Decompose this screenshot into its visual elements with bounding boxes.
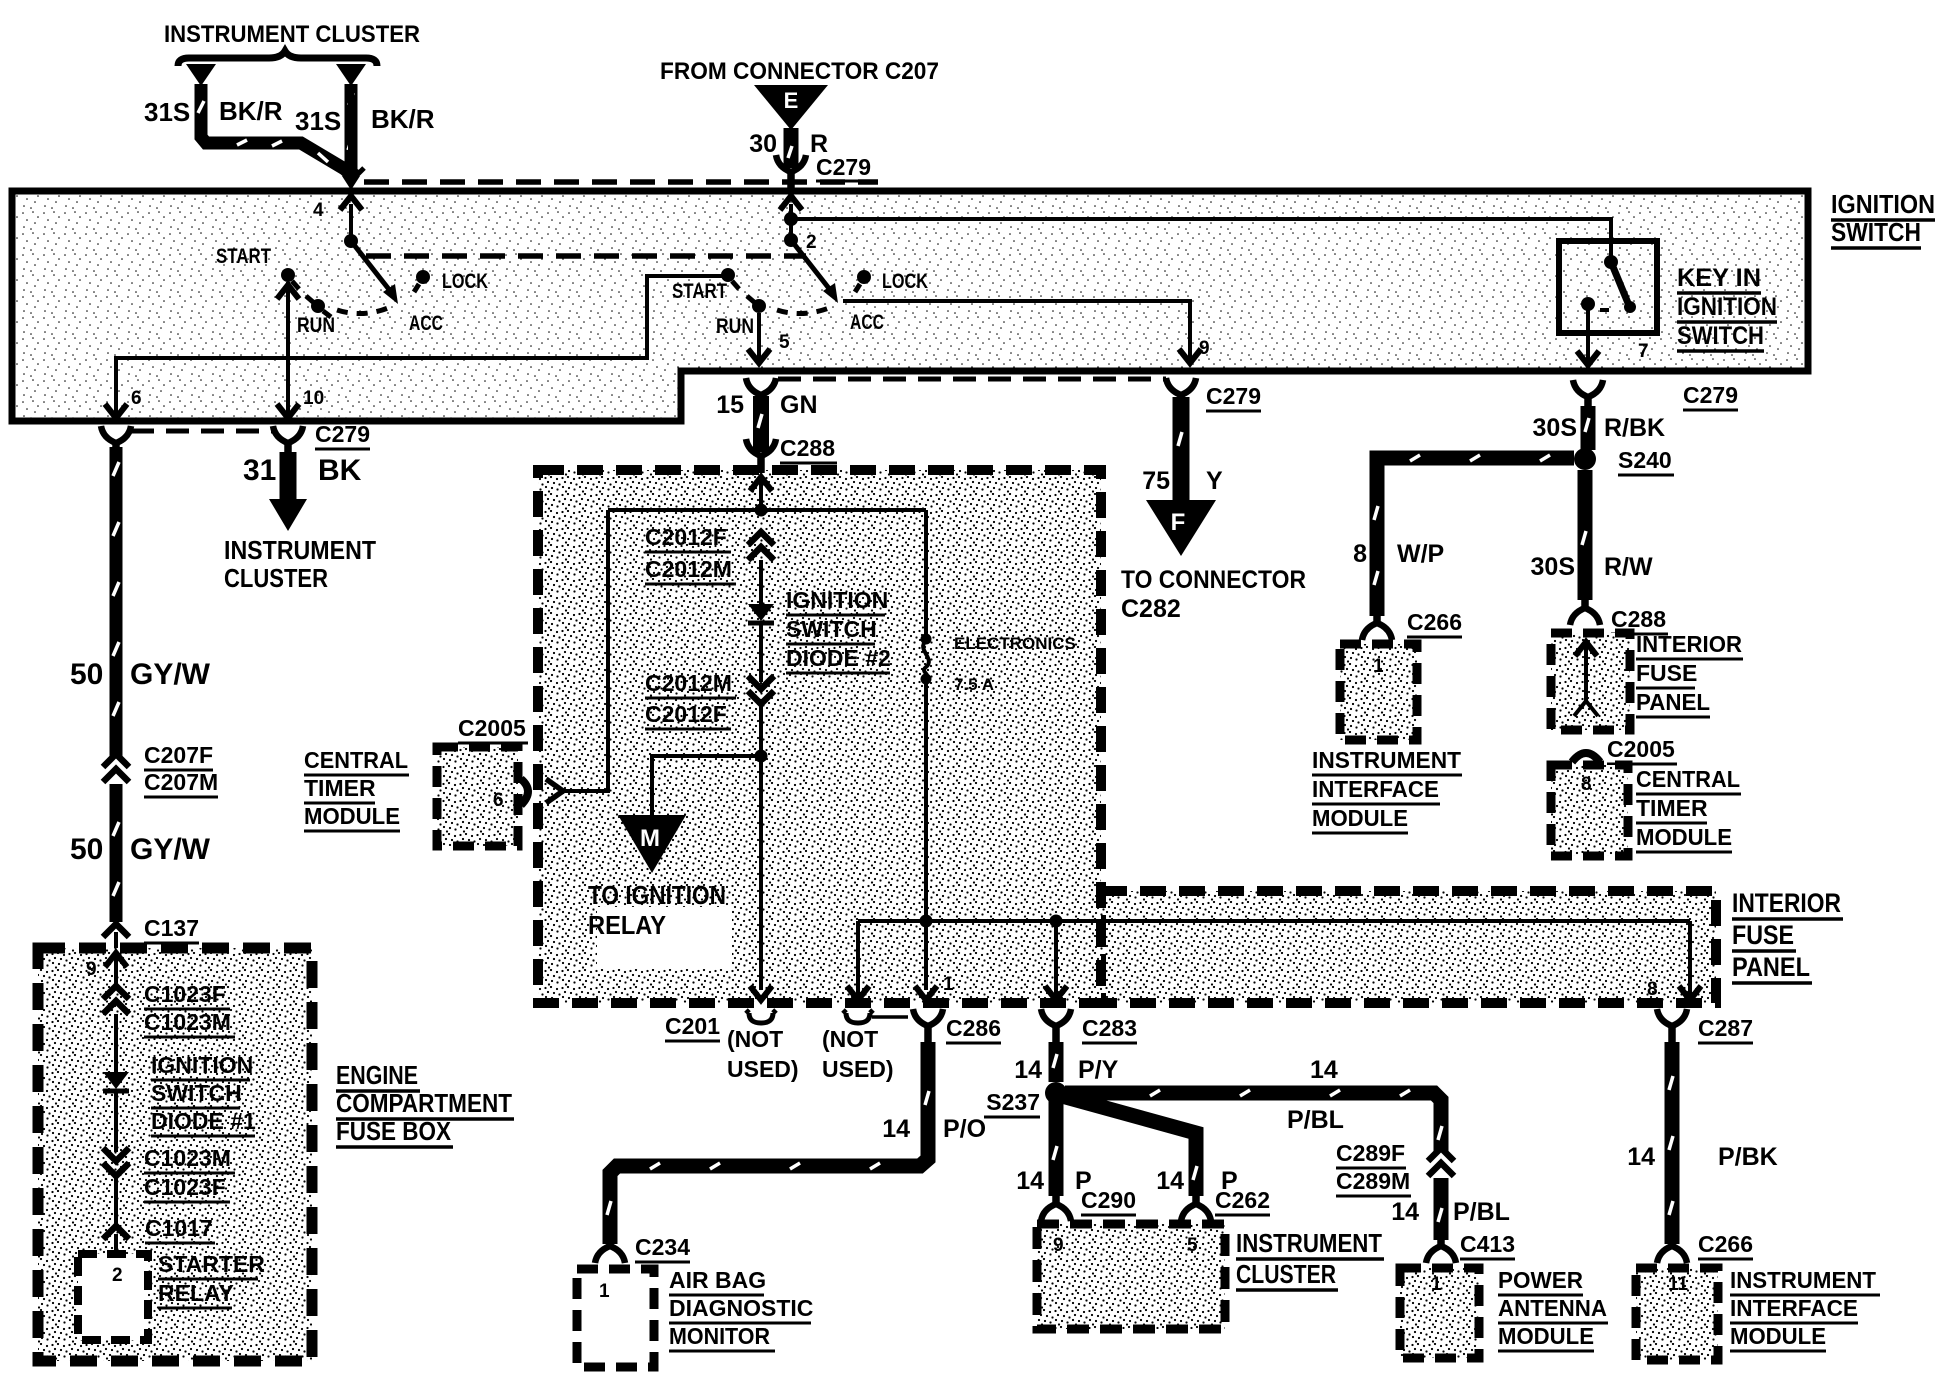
wire 75 Y <box>1178 397 1182 502</box>
wire 14 P/Y <box>1053 1042 1057 1082</box>
svg-text:C2005: C2005 <box>458 715 526 741</box>
svg-text:DIODE #1: DIODE #1 <box>151 1108 256 1134</box>
wire 30S R/W <box>1582 470 1586 600</box>
interior fuse panel box (bottom right, drawn first) <box>1101 891 1716 1003</box>
node junction to ignition relay branch <box>755 750 768 763</box>
fuse symbol inside <box>1574 642 1598 716</box>
svg-text:C234: C234 <box>635 1234 690 1260</box>
svg-text:Y: Y <box>1206 467 1223 495</box>
svg-text:IGNITION: IGNITION <box>1831 189 1935 219</box>
svg-text:C279: C279 <box>315 421 370 447</box>
connector fork C287 <box>1657 1009 1687 1043</box>
contact START (sw1) <box>281 268 299 289</box>
label POWER ANTENNA MODULE <box>1498 1267 1608 1351</box>
label 31S <box>144 97 190 127</box>
svg-text:RUN: RUN <box>716 315 754 338</box>
label C287 <box>1698 1015 1753 1043</box>
pin label 9 <box>1053 1235 1064 1256</box>
wire left branch down to C2005 input <box>563 510 608 791</box>
wire <box>114 1176 118 1226</box>
label TO CONNECTOR C282 <box>1121 566 1306 623</box>
switch 2 arm to ACC <box>791 240 838 303</box>
svg-text:USED): USED) <box>822 1056 894 1082</box>
label P <box>1221 1167 1238 1195</box>
pin label 5 <box>779 332 790 353</box>
key-in switch arm <box>1611 262 1636 313</box>
svg-text:TO IGNITION: TO IGNITION <box>588 880 726 910</box>
svg-text:14: 14 <box>1016 1167 1044 1195</box>
label IGNITION SWITCH (right) <box>1831 189 1935 248</box>
pin label 9 <box>1199 338 1210 359</box>
label INTERIOR FUSE PANEL (small) <box>1636 631 1743 717</box>
connector fork C262 <box>1181 1192 1211 1221</box>
wire into fuse box <box>114 932 118 950</box>
label RUN (sw1) <box>297 314 335 337</box>
connector fork C413 <box>1426 1234 1456 1263</box>
svg-text:C1023F: C1023F <box>144 981 226 1007</box>
dashed detent arc RUN-ACC (sw2) <box>777 308 829 314</box>
key-in top contact <box>1604 255 1618 269</box>
svg-text:4: 4 <box>313 200 324 221</box>
svg-text:1: 1 <box>943 974 954 995</box>
svg-text:8: 8 <box>1581 774 1592 795</box>
splice S240 <box>1574 448 1596 470</box>
svg-text:C2012F: C2012F <box>645 701 727 727</box>
label C234 <box>635 1234 690 1262</box>
wire 30 R <box>788 128 792 168</box>
node junction at top <box>755 504 768 517</box>
label C266 <box>1407 609 1462 637</box>
label START (sw1) <box>216 245 271 268</box>
label 30S <box>1533 414 1577 442</box>
svg-text:11: 11 <box>1668 1274 1689 1295</box>
svg-text:MODULE: MODULE <box>1636 824 1732 850</box>
arrow C201 at bottom edge <box>750 986 772 1000</box>
dashed detent arc RUN-ACC (sw1) <box>337 308 388 314</box>
svg-text:C288: C288 <box>780 435 835 461</box>
svg-text:7.5 A: 7.5 A <box>954 675 994 694</box>
arrow 31 BK to instrument cluster <box>269 452 307 531</box>
label C2005 (right) <box>1607 736 1677 764</box>
connector fork 75 Y below pin 9 <box>1166 378 1196 412</box>
connector fork 15 GN below pin 5 <box>746 378 776 412</box>
label AIR BAG DIAGNOSTIC MONITOR <box>669 1267 813 1351</box>
svg-text:STARTER: STARTER <box>158 1251 265 1277</box>
svg-text:C266: C266 <box>1407 609 1462 635</box>
wire down to C283 <box>1045 921 1067 1000</box>
wire 15 GN <box>758 396 762 452</box>
svg-text:C2012M: C2012M <box>645 670 732 696</box>
wire 31S BK/R left <box>201 84 358 177</box>
svg-text:BK/R: BK/R <box>371 104 435 134</box>
connector 31S right (triangle) <box>336 64 366 86</box>
wire hatch marks <box>198 93 353 162</box>
wire down to pin 8 C287 <box>1679 921 1701 1000</box>
white patch behind RELAY <box>597 907 732 969</box>
svg-text:C413: C413 <box>1460 1231 1515 1257</box>
node junction C283 <box>1050 915 1063 928</box>
svg-text:15: 15 <box>716 391 744 419</box>
svg-text:GY/W: GY/W <box>130 833 211 866</box>
contact RUN (sw2) <box>747 296 766 313</box>
label 14 <box>1016 1167 1044 1195</box>
svg-text:INTERFACE: INTERFACE <box>1312 776 1439 802</box>
svg-text:C207M: C207M <box>144 769 218 795</box>
connector fork C290 <box>1041 1192 1071 1221</box>
svg-text:MODULE: MODULE <box>1312 805 1408 831</box>
svg-text:1: 1 <box>1373 656 1384 677</box>
wire key-in pin 7 <box>1577 308 1599 365</box>
svg-text:5: 5 <box>779 332 790 353</box>
svg-text:W/P: W/P <box>1397 540 1444 568</box>
svg-text:C2005: C2005 <box>1607 736 1675 762</box>
label 14 (above) <box>1310 1056 1338 1084</box>
wire branch to M <box>652 756 761 816</box>
label P <box>1075 1167 1092 1195</box>
fuse ELECTRONICS 7.5A <box>921 634 932 685</box>
label C279 <box>816 154 872 181</box>
svg-text:DIODE #2: DIODE #2 <box>786 645 891 671</box>
svg-text:AIR BAG: AIR BAG <box>669 1267 766 1293</box>
svg-text:PANEL: PANEL <box>1636 689 1710 715</box>
wire 14 P/BL (horizontal) <box>1065 1090 1442 1152</box>
label INSTRUMENT CLUSTER (below arrow) <box>224 535 376 593</box>
svg-text:ENGINE: ENGINE <box>336 1060 418 1090</box>
svg-text:1: 1 <box>1431 1274 1442 1295</box>
connector M (triangle) to ignition relay <box>618 815 686 873</box>
svg-text:6: 6 <box>131 388 142 409</box>
svg-text:14: 14 <box>1627 1143 1655 1171</box>
svg-text:(NOT: (NOT <box>727 1026 783 1052</box>
switch 1: pin 4 wire <box>340 196 362 238</box>
label 31S (2nd) <box>295 106 341 136</box>
wire pin 9 from ACC (sw2) <box>843 301 1201 363</box>
pin label 6 <box>493 790 504 811</box>
svg-text:INSTRUMENT CLUSTER: INSTRUMENT CLUSTER <box>164 21 420 48</box>
label GY/W (lower) <box>130 833 211 866</box>
wire to key-in switch <box>791 219 1611 260</box>
label C201 <box>665 1013 720 1041</box>
label INSTRUMENT INTERFACE MODULE (top) <box>1312 747 1462 833</box>
svg-text:50: 50 <box>70 658 103 691</box>
svg-text:FROM CONNECTOR C207: FROM CONNECTOR C207 <box>660 58 939 85</box>
dashed connector line C279 (top) <box>364 179 878 185</box>
label 75 <box>1142 467 1170 495</box>
svg-text:C2012F: C2012F <box>645 524 727 550</box>
label C279 <box>315 421 370 449</box>
svg-text:C266: C266 <box>1698 1231 1753 1257</box>
svg-text:14: 14 <box>1156 1167 1184 1195</box>
connector C289F/C289M (double chevron) <box>1428 1148 1454 1176</box>
svg-text:9: 9 <box>1053 1235 1064 1256</box>
ignition switch diode #2 <box>748 604 774 623</box>
label TO IGNITION RELAY <box>588 880 726 940</box>
label (NOT USED) 1 <box>727 1026 799 1082</box>
connector C2012F/C2012M (double chevron up) <box>748 532 774 560</box>
svg-text:C279: C279 <box>816 154 871 180</box>
svg-text:2: 2 <box>806 232 817 253</box>
label KEY IN IGNITION SWITCH <box>1677 264 1777 351</box>
label 14 <box>1627 1143 1655 1171</box>
dashed connector line C279 (lower) <box>778 377 1166 382</box>
connector fork C279 pin 10 <box>273 426 303 460</box>
svg-text:9: 9 <box>1199 338 1210 359</box>
entry arrow inside central box (from C288) <box>750 477 772 508</box>
wire <box>759 623 763 682</box>
wire pin 6 from START (sw2) L-path <box>105 276 722 418</box>
svg-text:IGNITION: IGNITION <box>786 587 888 613</box>
label CENTRAL TIMER MODULE (left) <box>304 747 409 831</box>
label FROM CONNECTOR C207 <box>660 58 939 85</box>
svg-text:30S: 30S <box>1531 553 1575 581</box>
connector E (triangle) <box>754 85 828 130</box>
key-in bottom contact <box>1581 297 1615 311</box>
svg-text:C289M: C289M <box>1336 1168 1410 1194</box>
connector C207F/C207M (double chevron) <box>103 754 129 782</box>
pin label 11 <box>1668 1274 1689 1295</box>
svg-text:C290: C290 <box>1081 1187 1136 1213</box>
svg-text:5: 5 <box>1187 1235 1198 1256</box>
svg-text:C283: C283 <box>1082 1015 1137 1041</box>
wire to starter relay <box>114 1234 118 1254</box>
svg-text:SWITCH: SWITCH <box>1831 217 1921 247</box>
svg-text:FUSE: FUSE <box>1732 920 1794 950</box>
dashed mechanical linkage line <box>366 253 806 259</box>
switch 2: pin 2 wire <box>780 196 802 240</box>
contact LOCK (sw1) <box>414 270 430 292</box>
pin 9 entry arrow <box>105 953 127 986</box>
node junction fuse/panel line <box>920 915 933 928</box>
label C413 <box>1460 1231 1515 1259</box>
svg-text:14: 14 <box>1014 1056 1042 1084</box>
svg-text:TO CONNECTOR: TO CONNECTOR <box>1121 566 1306 594</box>
label W/P <box>1397 540 1444 568</box>
svg-text:C282: C282 <box>1121 595 1181 623</box>
connector fork C279 pin 6 <box>101 426 131 460</box>
wire <box>114 1091 118 1152</box>
label 14 <box>882 1115 910 1143</box>
label 14 <box>1156 1167 1184 1195</box>
label C279 (right) <box>1683 382 1738 410</box>
contact LOCK (sw2) <box>855 270 871 292</box>
connector half-round at module output <box>521 779 528 805</box>
label R/BK <box>1604 414 1665 442</box>
label INSTRUMENT INTERFACE MODULE (bottom) <box>1730 1267 1880 1351</box>
svg-text:INTERIOR: INTERIOR <box>1732 888 1841 918</box>
label P/BL <box>1453 1198 1510 1226</box>
label BK/R <box>219 96 283 126</box>
pin label 1 <box>599 1281 610 1302</box>
label 30S (lower) <box>1531 553 1575 581</box>
label Y <box>1206 467 1223 495</box>
label START (sw2) <box>672 280 727 303</box>
pin label 2 <box>806 232 817 253</box>
svg-text:INTERIOR: INTERIOR <box>1636 631 1742 657</box>
wire to electronics fuse (top horizontal) <box>608 508 926 512</box>
label C279 (lower) <box>1206 383 1261 411</box>
svg-text:31: 31 <box>243 454 276 487</box>
label ELECTRONICS <box>954 634 1076 653</box>
svg-text:KEY IN: KEY IN <box>1677 264 1761 292</box>
connector 31S left (triangle) <box>186 64 216 86</box>
svg-text:75: 75 <box>1142 467 1170 495</box>
label IGNITION SWITCH DIODE #2 <box>786 587 891 673</box>
wire pin 5 from RUN (sw2) <box>748 313 770 363</box>
svg-text:TIMER: TIMER <box>1636 795 1708 821</box>
label BK <box>318 454 362 487</box>
svg-text:S237: S237 <box>986 1089 1040 1115</box>
svg-text:RELAY: RELAY <box>158 1280 234 1306</box>
air bag diagnostic monitor box <box>577 1269 654 1367</box>
pin label 8 <box>1581 774 1592 795</box>
label C137 <box>144 915 199 943</box>
connector C1017 (chevron) <box>103 1226 129 1239</box>
label GN <box>780 391 818 419</box>
switch 2 pivot node <box>784 233 798 247</box>
svg-text:C289F: C289F <box>1336 1140 1405 1166</box>
switch 1 arm to ACC <box>351 241 398 304</box>
contact START (sw2) <box>721 268 739 289</box>
label 15 <box>716 391 744 419</box>
label C288 (right) <box>1611 606 1668 634</box>
svg-text:CENTRAL: CENTRAL <box>1636 766 1740 792</box>
label ACC (sw1) <box>409 312 443 335</box>
svg-text:C2012M: C2012M <box>645 556 732 582</box>
svg-text:SWITCH: SWITCH <box>786 616 877 642</box>
svg-text:CLUSTER: CLUSTER <box>1236 1259 1336 1289</box>
svg-text:P/Y: P/Y <box>1078 1056 1119 1084</box>
power antenna module box <box>1400 1268 1479 1358</box>
svg-text:POWER: POWER <box>1498 1267 1583 1293</box>
svg-text:C137: C137 <box>144 915 199 941</box>
wire electronics fuse branch <box>924 510 928 636</box>
label 31 <box>243 454 276 487</box>
label C286 <box>946 1015 1001 1043</box>
svg-text:GN: GN <box>780 391 818 419</box>
wire 50 GY/W lower <box>113 784 119 922</box>
svg-text:C1023F: C1023F <box>144 1174 226 1200</box>
svg-text:P/BL: P/BL <box>1287 1106 1344 1134</box>
svg-text:RUN: RUN <box>297 314 335 337</box>
svg-text:30S: 30S <box>1533 414 1577 442</box>
label IGNITION SWITCH DIODE #1 <box>151 1052 256 1136</box>
pin label 1 <box>1431 1274 1442 1295</box>
wire 14 P/BL (lower) <box>1438 1178 1442 1240</box>
svg-text:INSTRUMENT: INSTRUMENT <box>224 535 376 565</box>
svg-text:BK: BK <box>318 454 362 487</box>
connector fork C234 <box>595 1234 625 1263</box>
svg-text:USED): USED) <box>727 1056 799 1082</box>
svg-text:COMPARTMENT: COMPARTMENT <box>336 1088 512 1118</box>
connector fork C279 pin 7 <box>1573 380 1603 414</box>
key-in ignition switch box <box>1559 241 1657 333</box>
label P/Y <box>1078 1056 1119 1084</box>
svg-text:F: F <box>1171 509 1186 536</box>
label BK/R (2nd) <box>371 104 435 134</box>
label C266 (bottom) <box>1698 1231 1753 1259</box>
pin label 9 <box>86 959 97 980</box>
pin label 7 <box>1638 341 1649 362</box>
starter relay box <box>78 1254 148 1340</box>
svg-text:14: 14 <box>1391 1198 1419 1226</box>
svg-text:MODULE: MODULE <box>1730 1323 1826 1349</box>
wire <box>759 560 763 604</box>
connector fork C288 (right) <box>1570 596 1600 625</box>
arrow C286 at bottom edge <box>915 986 937 1000</box>
svg-text:14: 14 <box>1310 1056 1338 1084</box>
connector fork at C279 pin 30 <box>776 155 806 189</box>
svg-text:14: 14 <box>882 1115 910 1143</box>
svg-text:MONITOR: MONITOR <box>669 1323 770 1349</box>
wire <box>114 1014 118 1072</box>
svg-text:INSTRUMENT: INSTRUMENT <box>1730 1267 1876 1293</box>
connector cup (not used) 2 <box>843 1010 908 1023</box>
engine compartment fuse box <box>38 948 312 1361</box>
svg-text:START: START <box>216 245 271 268</box>
svg-text:C201: C201 <box>665 1013 720 1039</box>
wire 14 P/BK <box>1669 1042 1673 1244</box>
svg-text:M: M <box>640 825 660 852</box>
svg-text:8: 8 <box>1353 540 1367 568</box>
svg-text:9: 9 <box>86 959 97 980</box>
svg-text:C279: C279 <box>1683 382 1738 408</box>
svg-text:MODULE: MODULE <box>304 803 400 829</box>
connector fork C283 <box>1041 1009 1071 1043</box>
ignition switch box <box>12 191 1808 421</box>
svg-text:2: 2 <box>112 1265 123 1286</box>
label LOCK (sw2) <box>882 270 928 293</box>
label RUN (sw2) <box>716 315 754 338</box>
interior fuse panel small box <box>1551 633 1630 730</box>
ignition switch diode #1 <box>103 1072 129 1091</box>
svg-text:C287: C287 <box>1698 1015 1753 1041</box>
svg-text:ELECTRONICS: ELECTRONICS <box>954 634 1076 653</box>
central timer module box (right) <box>1551 765 1628 856</box>
label C262 <box>1215 1187 1270 1215</box>
label 14 <box>1014 1056 1042 1084</box>
svg-text:30: 30 <box>749 130 777 158</box>
label S240 <box>1618 447 1674 475</box>
label 50 <box>70 658 103 691</box>
connector chevron at C2005 input <box>546 779 563 803</box>
svg-text:P/O: P/O <box>943 1115 986 1143</box>
pin label 1 <box>1373 656 1384 677</box>
svg-text:INTERFACE: INTERFACE <box>1730 1295 1858 1321</box>
svg-text:(NOT: (NOT <box>822 1026 878 1052</box>
wire <box>759 704 763 990</box>
connector F (triangle) to C282 <box>1146 500 1216 556</box>
label P/O <box>943 1115 986 1143</box>
wire 8 W/P <box>1374 455 1574 616</box>
wire below fuse <box>924 681 928 990</box>
svg-text:C262: C262 <box>1215 1187 1270 1213</box>
wire pin 10 from START (sw1) <box>277 282 299 418</box>
label C1023M / C1023F <box>144 1145 235 1202</box>
svg-text:31S: 31S <box>295 106 341 136</box>
instrument cluster box <box>1037 1224 1225 1329</box>
label INTERIOR FUSE PANEL (big box) <box>1732 888 1843 983</box>
wire 31S BK/R right <box>345 84 358 178</box>
pin label 5 <box>1187 1235 1198 1256</box>
label INSTRUMENT CLUSTER (box) <box>1236 1228 1384 1290</box>
svg-text:7: 7 <box>1638 341 1649 362</box>
label C289F / C289M <box>1336 1140 1411 1196</box>
pin label 2 <box>112 1265 123 1286</box>
wire down to (not used) C286-side <box>847 921 869 1000</box>
svg-text:CENTRAL: CENTRAL <box>304 747 408 773</box>
label 30 <box>749 130 777 158</box>
instrument interface module box (bottom) <box>1636 1268 1718 1360</box>
